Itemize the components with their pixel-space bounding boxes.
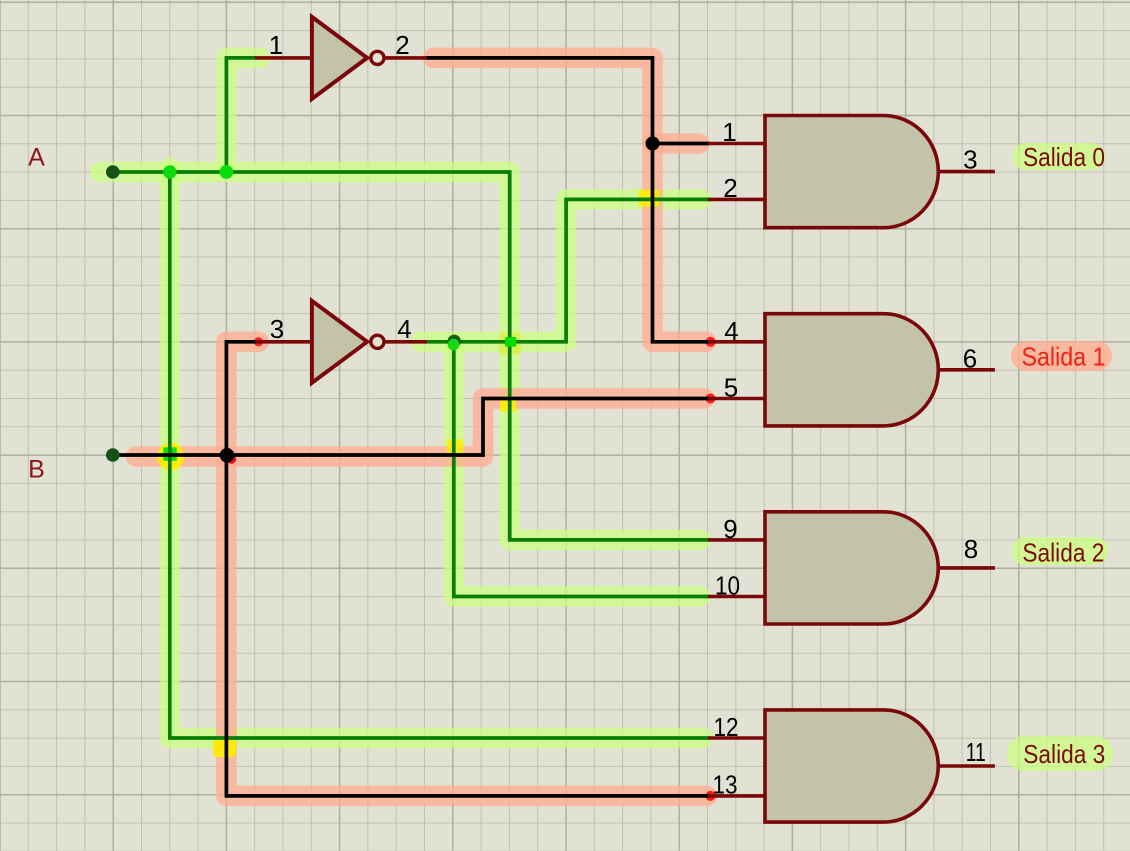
svg-text:3: 3	[963, 145, 977, 175]
highlight salmon label Salida 1	[1011, 341, 1112, 371]
highlight salmon net B branch to U2 input	[226, 342, 259, 455]
wire net NOTB branch to pin 10	[454, 342, 710, 597]
wire state sliver U1 output	[424, 56, 429, 60]
highlight green label Salida 2	[1012, 537, 1108, 565]
svg-text:4: 4	[397, 314, 411, 344]
svg-text:1: 1	[722, 117, 736, 147]
overlap marker at NOTB wire x net A vertical	[499, 333, 521, 355]
terminal node A	[106, 165, 120, 179]
wire net B: terminal B to pin 5	[113, 399, 710, 456]
svg-text:8: 8	[964, 534, 978, 564]
red state dot U2 input stub	[254, 337, 263, 346]
svg-text:4: 4	[724, 316, 738, 346]
highlight green net A branch to U1 input	[226, 58, 260, 168]
wire net B branch to pin 13	[226, 455, 710, 796]
state square at NOTB x net A crossing	[505, 337, 516, 347]
svg-text:11: 11	[966, 737, 986, 767]
terminal node B	[106, 448, 120, 462]
highlight green net A branch to pin 12	[170, 168, 703, 738]
svg-text:Salida 2: Salida 2	[1022, 538, 1104, 568]
overlap marker at pin2 wire x NOTA vertical	[639, 190, 660, 207]
highlight green net NOTB branch to pin 10	[454, 346, 700, 597]
wire net NOTB: U2 output to pin 2	[427, 199, 710, 341]
junction net B	[220, 448, 235, 463]
and-gate U5 (Salida 2)	[708, 512, 995, 624]
highlight salmon net B to pin 5	[136, 399, 704, 457]
red state dot pin 4	[706, 337, 716, 347]
inverter U1	[255, 17, 427, 99]
svg-text:2: 2	[395, 30, 409, 60]
svg-text:1: 1	[269, 30, 283, 60]
svg-text:2: 2	[723, 173, 737, 203]
svg-text:Salida 0: Salida 0	[1023, 142, 1105, 172]
junction net NOTA / pin1 branch	[646, 137, 660, 151]
highlight green net A	[100, 172, 700, 540]
svg-text:B: B	[28, 456, 45, 484]
and-gate U3 (Salida 0)	[708, 116, 995, 228]
junction net NOTB / pin10 branch	[448, 335, 461, 348]
wire net A branch to pin 12	[170, 172, 710, 738]
red state dot node B junction	[227, 455, 236, 464]
svg-text:Salida 3: Salida 3	[1023, 739, 1105, 769]
highlight salmon net NOTA from U1 output to pin 4	[433, 58, 706, 342]
highlight green net NOTB from U2 output to pin 2	[421, 199, 701, 341]
and-gate U4 (Salida 1)	[708, 314, 995, 426]
highlight green label Salida 3	[1007, 736, 1113, 771]
svg-text:10: 10	[715, 571, 740, 601]
red state dot pin 13	[706, 791, 716, 801]
highlight salmon net B branch to pin 13	[226, 455, 707, 796]
svg-text:6: 6	[963, 344, 977, 374]
junction net A / U1 input branch	[220, 165, 234, 179]
overlap marker at net B x pin10 vertical	[447, 439, 463, 453]
wire net B branch to U2 input	[226, 342, 256, 455]
svg-text:9: 9	[723, 514, 737, 544]
wire net NOTA branch to pin 1	[653, 142, 711, 146]
overlap marker at pin5 wire x net A vertical	[500, 396, 516, 412]
overlap marker at pin12 wire x pin13 vertical	[213, 738, 236, 757]
overlap marker at node A x pin13 vertical	[157, 443, 184, 471]
wire net A: terminal A to pin 9	[113, 172, 710, 540]
svg-text:5: 5	[724, 373, 738, 403]
inverter U2	[255, 301, 427, 383]
wire net A branch to U1 input	[226, 58, 256, 172]
highlight green label Salida 0	[1012, 143, 1105, 170]
svg-text:A: A	[28, 143, 45, 171]
highlight salmon net NOTA branch to pin 1	[653, 133, 700, 154]
junction net A / pin12 branch	[163, 165, 176, 178]
red state dot pin 5	[706, 394, 716, 404]
and-gate U6 (Salida 3)	[708, 710, 995, 822]
svg-text:13: 13	[713, 770, 738, 800]
svg-text:Salida 1: Salida 1	[1022, 341, 1106, 371]
svg-text:12: 12	[714, 712, 739, 742]
svg-text:3: 3	[270, 314, 284, 344]
wire net NOTA: U1 output to pin 4	[427, 58, 710, 342]
